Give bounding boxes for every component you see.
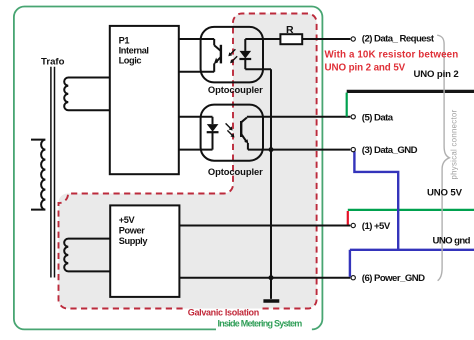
svg-text:Galvanic Isolation: Galvanic Isolation [188, 307, 259, 317]
blue wire UNO gnd to Power_GND [349, 250, 351, 277]
optocoupler OK2 light arrows [226, 123, 233, 135]
svg-text:UNO 5V: UNO 5V [427, 188, 463, 199]
svg-text:Inside Metering System: Inside Metering System [218, 318, 303, 328]
terminal (1) +5V [351, 223, 355, 227]
UNO pin 2 thick wire [347, 90, 474, 93]
optocoupler OK1 LED [239, 39, 251, 69]
ground symbol [263, 299, 279, 303]
transformer secondary winding (logic side) [64, 78, 110, 111]
galvanic isolation dashed border [58, 14, 316, 309]
optocoupler OK2 body [201, 105, 263, 161]
optocoupler OK1 light arrows [230, 49, 237, 61]
svg-text:P1: P1 [119, 35, 130, 45]
optocoupler OK1 phototransistor [214, 39, 221, 72]
inside metering system border [14, 7, 323, 330]
galvanic isolation zone fill [58, 14, 316, 309]
svg-text:(2) Data_ Request: (2) Data_ Request [362, 34, 435, 45]
brace physical connector [437, 35, 449, 281]
svg-text:physical connector: physical connector [450, 109, 459, 179]
transformer T1 core [50, 67, 52, 278]
svg-text:UNO pin 2: UNO pin 2 [414, 69, 459, 80]
junction dot on Power_GND wire [269, 275, 274, 280]
svg-text:R: R [286, 24, 294, 36]
blue wire Data_GND to UNO gnd [354, 151, 398, 250]
optocoupler OK2 phototransistor [241, 118, 248, 150]
blue wire UNO gnd horizontal [350, 249, 474, 251]
svg-text:(5) Data: (5) Data [362, 112, 394, 123]
red wire 5V link [347, 211, 349, 225]
wire OK1 LED anode to resistor and terminal 2 [245, 38, 350, 40]
ground rail wire [270, 69, 272, 299]
terminal (2) Data_Request [351, 37, 355, 41]
svg-text:UNO gnd: UNO gnd [433, 236, 471, 247]
svg-text:(3) Data_GND: (3) Data_GND [362, 145, 418, 156]
svg-text:Trafo: Trafo [41, 57, 65, 68]
green wire UNO 5V [348, 209, 474, 211]
wire OK1 LED cathode to ground rail [245, 68, 271, 70]
wire P1 to optocoupler1 emitter [179, 71, 214, 73]
svg-text:Optocoupler: Optocoupler [208, 166, 263, 177]
transformer secondary winding (power side) [64, 239, 110, 272]
junction dot on Data_GND wire [269, 147, 274, 152]
terminal (6) Power_GND [351, 276, 355, 280]
optocoupler OK2 LED [207, 117, 219, 150]
resistor R [280, 34, 302, 44]
svg-text:UNO pin 2 and 5V: UNO pin 2 and 5V [325, 62, 406, 73]
terminal (3) Data_GND [351, 147, 355, 151]
wire power supply +5V output to terminal 1 [179, 225, 350, 227]
svg-text:Logic: Logic [119, 55, 142, 65]
svg-text:(1) +5V: (1) +5V [362, 221, 391, 232]
wire P1 to optocoupler1 collector [179, 38, 214, 40]
svg-text:With a 10K resistor between: With a 10K resistor between [325, 50, 459, 61]
wire P1 to optocoupler2 LED cathode [179, 149, 213, 151]
svg-text:Power: Power [119, 225, 145, 235]
svg-text:Optocoupler: Optocoupler [208, 84, 263, 95]
P1 internal logic block [110, 26, 179, 174]
transformer primary winding [31, 140, 45, 210]
svg-text:Supply: Supply [119, 236, 149, 246]
+5V power supply block [110, 205, 179, 297]
optocoupler OK1 body [201, 27, 263, 83]
wire OK2 emitter to terminal 3 [248, 149, 350, 151]
wire OK2 collector to terminal 5 [247, 116, 350, 118]
wire power supply GND output to terminal 6 [179, 277, 350, 279]
svg-text:Internal: Internal [119, 45, 149, 55]
svg-text:+5V: +5V [119, 215, 136, 225]
wire P1 to optocoupler2 LED anode [179, 116, 213, 118]
svg-text:(6) Power_GND: (6) Power_GND [362, 273, 425, 284]
green wire UNO pin2 pull-up to Data [346, 93, 348, 117]
terminal (5) Data [351, 115, 355, 119]
